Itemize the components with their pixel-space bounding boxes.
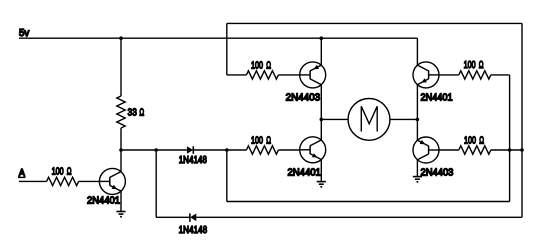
svg-text:1N4148: 1N4148: [179, 225, 208, 236]
wire: motor left lead: [321, 118, 348, 120]
wire: lower middle transistor emitter down: [320, 160, 322, 182]
wire: upper middle transistor down to motor node: [320, 85, 322, 140]
transistor 2N4401 (lower middle, NPN): [300, 137, 326, 163]
node: right resistors junction (outer): [520, 148, 524, 152]
ground (lower middle transistor): [317, 181, 326, 183]
node: branch to bottom return loop: [154, 148, 158, 152]
wire: upper right transistor down to motor node: [416, 85, 418, 141]
svg-text:Ω: Ω: [266, 135, 271, 146]
svg-text:100: 100: [251, 61, 263, 72]
transistor 2N4401 (input, lower left): [99, 168, 125, 194]
ground (lower right transistor): [413, 176, 422, 178]
node: motor left terminal: [320, 118, 324, 122]
svg-text:Ω: Ω: [479, 60, 484, 71]
resistor 100 ohm (base of lower middle 2N4401): [227, 149, 247, 151]
svg-text:Ω: Ω: [139, 108, 144, 119]
wire: input transistor collector up to node: [120, 150, 122, 172]
svg-text:2N4403: 2N4403: [286, 92, 321, 103]
wire: 5v node down to upper middle transistor: [320, 38, 322, 65]
wire: 5v supply rail: [19, 37, 417, 39]
wire: mid row from collector node to diode: [121, 149, 187, 151]
wire: motor right lead: [390, 118, 418, 120]
svg-text:100: 100: [464, 60, 476, 71]
svg-text:2N4401: 2N4401: [421, 93, 454, 104]
wire: inner bottom return (node B to right bases): [226, 150, 228, 202]
svg-text:Ω: Ω: [67, 166, 72, 177]
resistor 100 ohm (base of upper right 2N4401): [439, 74, 459, 76]
wire: right inner vertical joining both right base resistors: [509, 75, 511, 202]
resistor 100 ohm (base of upper middle 2N4403): [227, 74, 247, 76]
svg-text:Ω: Ω: [479, 136, 484, 147]
svg-text:2N4403: 2N4403: [421, 168, 454, 179]
node: collector node of input transistor: [119, 148, 123, 152]
wire: 5v rail corner down to upper right transistor: [416, 38, 418, 65]
wire: bottom loop left of diode: [156, 216, 190, 218]
node: 5v to left bridge transistor junction: [320, 36, 324, 40]
svg-text:100: 100: [52, 166, 64, 177]
ground (input transistor emitter): [116, 211, 125, 213]
diode 1N4148 (middle, pointing right): [187, 146, 193, 154]
resistor 100 ohm (base of lower right 2N4403): [439, 149, 459, 151]
svg-text:33: 33: [128, 107, 138, 118]
svg-text:5v: 5v: [19, 28, 29, 39]
transistor 2N4401 (upper right, NPN): [413, 62, 439, 88]
resistor 100 ohm (input A): [19, 180, 47, 182]
svg-text:2N4401: 2N4401: [288, 167, 322, 178]
motor M: [348, 99, 390, 141]
svg-text:Ω: Ω: [266, 61, 271, 72]
diode 1N4148 (bottom, pointing left): [189, 213, 191, 221]
svg-text:100: 100: [251, 135, 263, 146]
svg-text:100: 100: [464, 136, 476, 147]
svg-text:2N4401: 2N4401: [87, 196, 120, 207]
node: right resistors junction (inner): [508, 148, 512, 152]
wire: right outer vertical: [521, 23, 523, 217]
svg-text:1N4148: 1N4148: [179, 155, 208, 166]
transistor 2N4403 (lower right, PNP): [413, 137, 439, 163]
wire: input transistor emitter down: [120, 191, 122, 211]
node B: junction of diode, base resistor and lower loop: [225, 148, 229, 152]
wire: lower right transistor emitter down: [416, 160, 418, 177]
wire: top feedback line: [227, 22, 522, 24]
node: 5v to 33 ohm junction: [119, 36, 123, 40]
wire: branch node down to bottom loop: [155, 150, 157, 217]
wire: left vertical of top feedback loop: [226, 23, 228, 75]
transistor 2N4403 (upper middle, PNP): [300, 62, 326, 88]
wire: diode cathode to node B: [193, 149, 227, 151]
resistor 33 ohm (vertical): [120, 38, 122, 96]
wire: bottom loop right of diode: [196, 216, 522, 218]
node: motor right terminal: [416, 118, 420, 122]
